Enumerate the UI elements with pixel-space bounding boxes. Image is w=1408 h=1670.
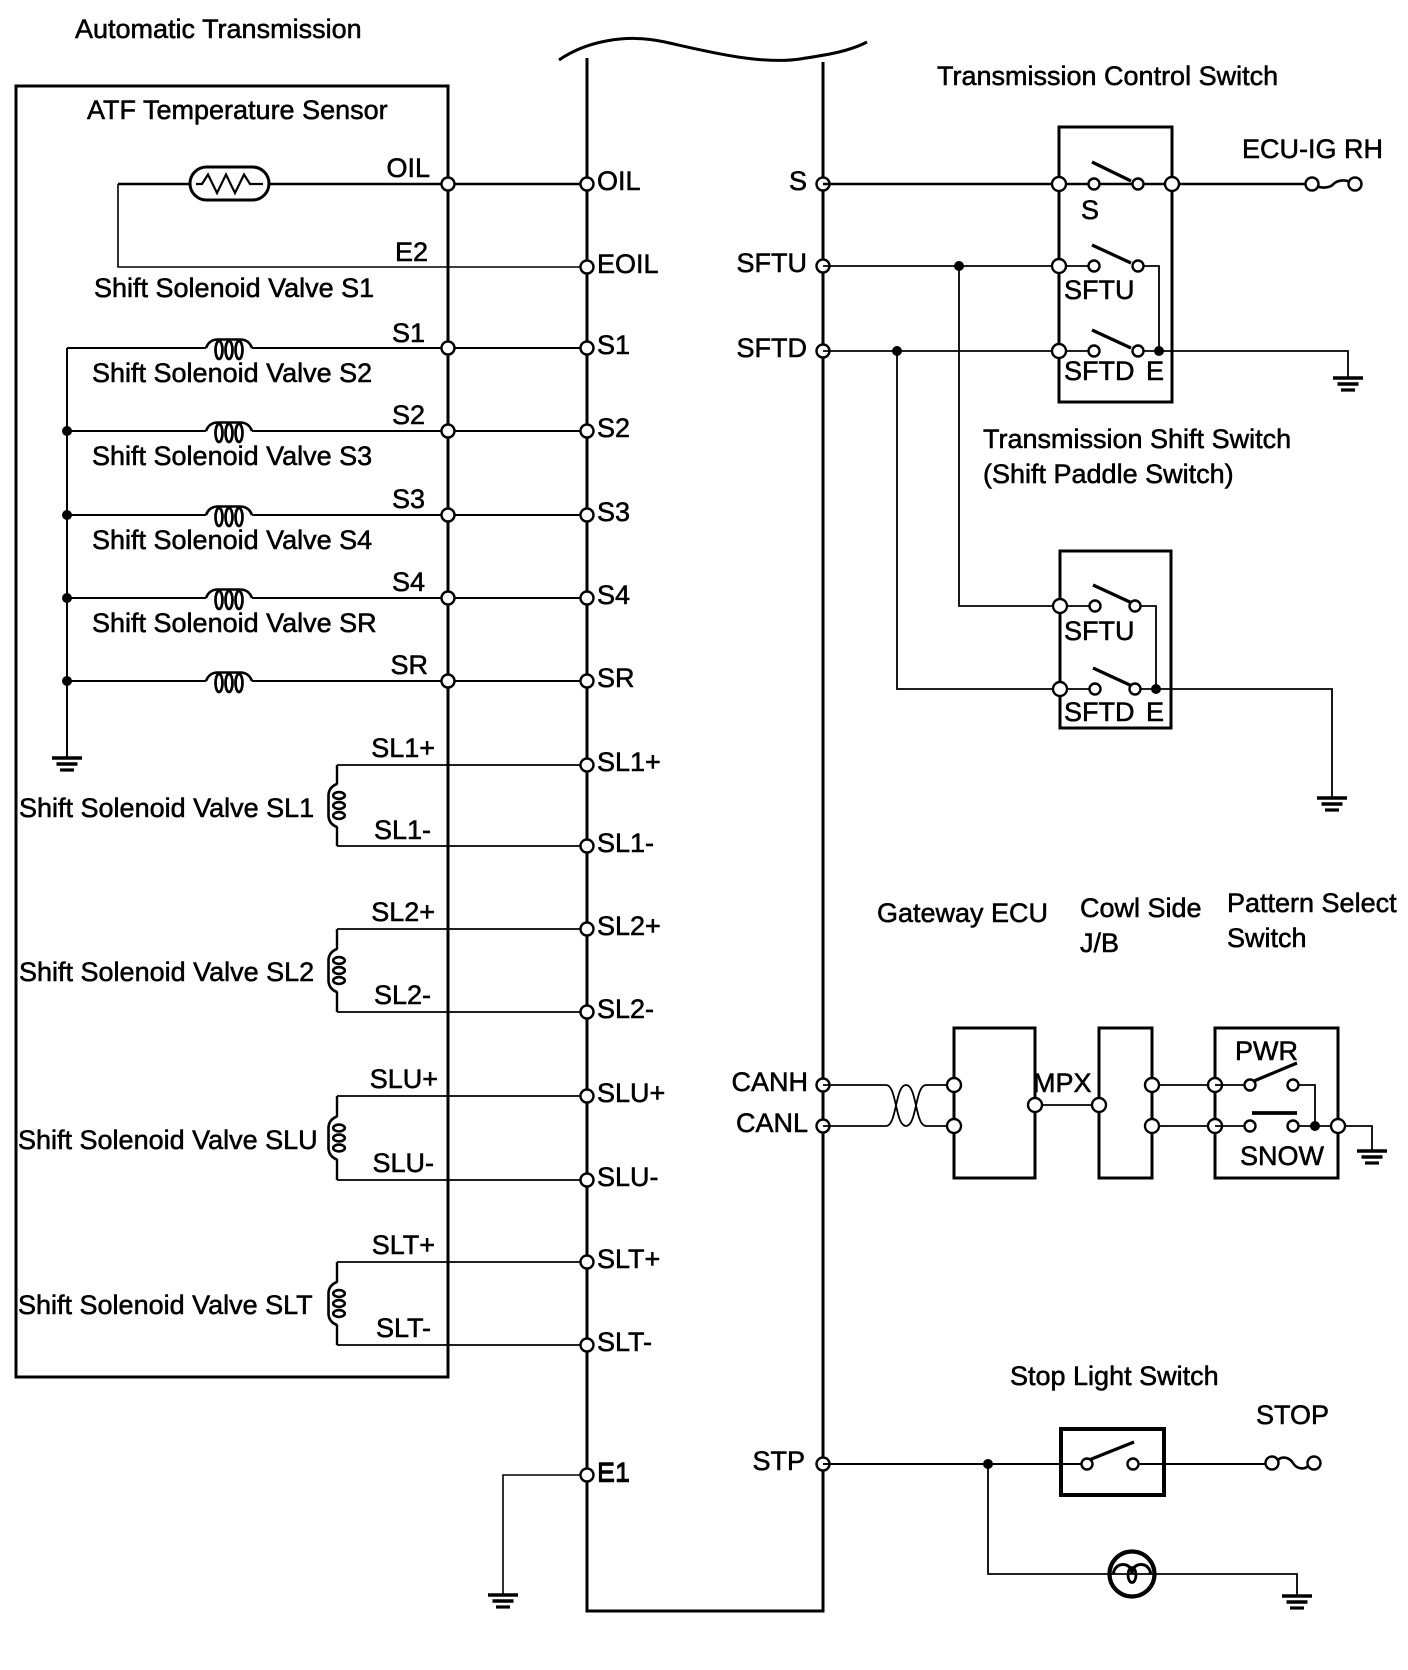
- svg-text:S3: S3: [392, 484, 425, 514]
- svg-text:S4: S4: [392, 567, 425, 597]
- svg-text:Transmission Control Switch: Transmission Control Switch: [937, 61, 1278, 91]
- svg-text:SL2+: SL2+: [371, 897, 435, 927]
- svg-text:E: E: [1146, 697, 1164, 727]
- svg-text:S1: S1: [392, 318, 425, 348]
- svg-text:SLU+: SLU+: [597, 1078, 665, 1108]
- svg-text:SFTU: SFTU: [1064, 616, 1135, 646]
- svg-text:E: E: [1146, 356, 1164, 386]
- svg-text:STOP: STOP: [1256, 1400, 1329, 1430]
- svg-text:S1: S1: [597, 330, 630, 360]
- svg-text:E2: E2: [395, 237, 428, 267]
- svg-text:Shift Solenoid Valve SL2: Shift Solenoid Valve SL2: [19, 957, 314, 987]
- svg-text:SL1+: SL1+: [371, 733, 435, 763]
- svg-text:PWR: PWR: [1235, 1036, 1298, 1066]
- svg-text:ATF Temperature Sensor: ATF Temperature Sensor: [87, 95, 388, 125]
- svg-text:Transmission Shift Switch: Transmission Shift Switch: [983, 424, 1291, 454]
- svg-text:SLT-: SLT-: [376, 1313, 431, 1343]
- svg-text:Shift Solenoid Valve S3: Shift Solenoid Valve S3: [92, 441, 372, 471]
- svg-text:SLT+: SLT+: [372, 1230, 435, 1260]
- svg-text:SFTU: SFTU: [1064, 275, 1135, 305]
- svg-text:Switch: Switch: [1227, 923, 1307, 953]
- svg-text:Gateway ECU: Gateway ECU: [877, 898, 1048, 928]
- svg-text:SR: SR: [390, 650, 428, 680]
- svg-text:SLU-: SLU-: [597, 1162, 659, 1192]
- svg-text:SNOW: SNOW: [1240, 1141, 1325, 1171]
- svg-text:E1: E1: [597, 1458, 630, 1488]
- svg-text:S2: S2: [597, 413, 630, 443]
- svg-text:J/B: J/B: [1080, 928, 1119, 958]
- svg-text:OIL: OIL: [597, 166, 641, 196]
- svg-text:OIL: OIL: [386, 153, 430, 183]
- svg-text:Pattern Select: Pattern Select: [1227, 888, 1397, 918]
- svg-text:EOIL: EOIL: [597, 249, 659, 279]
- svg-text:S: S: [1081, 195, 1099, 225]
- svg-text:SFTU: SFTU: [737, 248, 808, 278]
- svg-text:S2: S2: [392, 400, 425, 430]
- svg-text:Shift Solenoid Valve SLT: Shift Solenoid Valve SLT: [18, 1290, 313, 1320]
- svg-text:Cowl Side: Cowl Side: [1080, 893, 1202, 923]
- svg-text:CANL: CANL: [736, 1108, 808, 1138]
- svg-text:SLU-: SLU-: [372, 1148, 434, 1178]
- svg-text:S4: S4: [597, 580, 630, 610]
- svg-text:SFTD: SFTD: [1064, 356, 1135, 386]
- svg-text:SLT-: SLT-: [597, 1327, 652, 1357]
- svg-text:SL1-: SL1-: [374, 815, 431, 845]
- svg-text:(Shift Paddle Switch): (Shift Paddle Switch): [983, 459, 1234, 489]
- svg-text:CANH: CANH: [731, 1067, 808, 1097]
- svg-text:SL2+: SL2+: [597, 911, 661, 941]
- svg-text:SLU+: SLU+: [370, 1064, 438, 1094]
- svg-text:SLT+: SLT+: [597, 1244, 660, 1274]
- svg-text:Shift Solenoid Valve S4: Shift Solenoid Valve S4: [92, 525, 372, 555]
- svg-text:ECU-IG RH: ECU-IG RH: [1242, 134, 1383, 164]
- svg-text:Shift Solenoid Valve SLU: Shift Solenoid Valve SLU: [18, 1125, 318, 1155]
- svg-text:S: S: [789, 166, 807, 196]
- svg-text:SL2-: SL2-: [374, 980, 431, 1010]
- svg-text:Shift Solenoid Valve S1: Shift Solenoid Valve S1: [94, 273, 374, 303]
- svg-text:SL1-: SL1-: [597, 828, 654, 858]
- svg-text:Shift Solenoid Valve SL1: Shift Solenoid Valve SL1: [19, 793, 314, 823]
- svg-text:S3: S3: [597, 497, 630, 527]
- svg-text:STP: STP: [752, 1446, 805, 1476]
- svg-text:SL1+: SL1+: [597, 747, 661, 777]
- svg-text:Stop Light Switch: Stop Light Switch: [1010, 1361, 1219, 1391]
- svg-text:Shift Solenoid Valve S2: Shift Solenoid Valve S2: [92, 358, 372, 388]
- svg-text:SL2-: SL2-: [597, 994, 654, 1024]
- svg-text:SR: SR: [597, 663, 635, 693]
- svg-text:Shift Solenoid Valve SR: Shift Solenoid Valve SR: [92, 608, 377, 638]
- svg-text:MPX: MPX: [1033, 1068, 1092, 1098]
- svg-text:SFTD: SFTD: [737, 333, 808, 363]
- svg-text:Automatic Transmission: Automatic Transmission: [75, 14, 362, 44]
- svg-text:SFTD: SFTD: [1064, 697, 1135, 727]
